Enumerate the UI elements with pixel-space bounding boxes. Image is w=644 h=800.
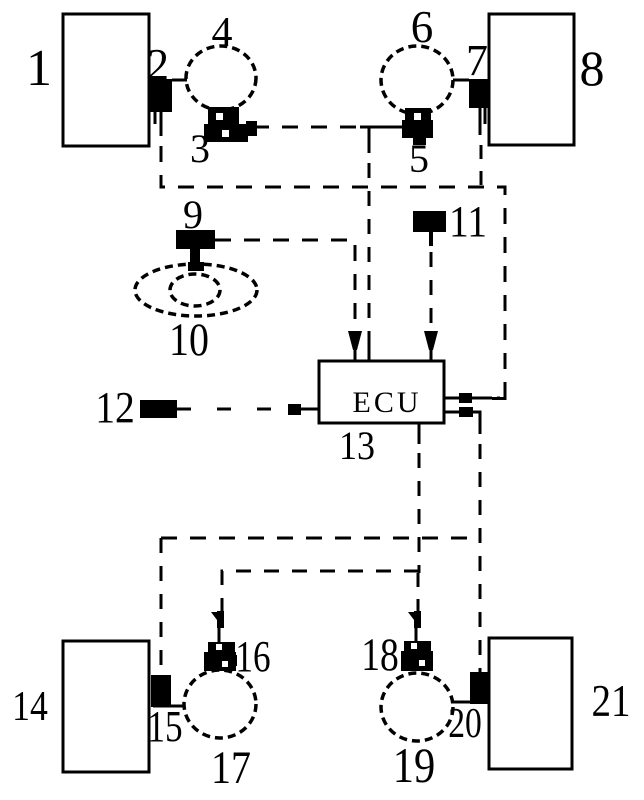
wheel speed sensor 2	[150, 79, 172, 112]
brake disc circle 17	[184, 670, 256, 738]
wire circle6 to sensor7	[453, 79, 469, 82]
wire left port to ECU	[301, 408, 319, 411]
svg-text:9: 9	[183, 192, 203, 237]
svg-text:12: 12	[95, 384, 135, 432]
svg-text:11: 11	[449, 198, 487, 246]
sensor 12	[140, 400, 177, 418]
wheel speed sensor 7	[469, 79, 489, 108]
wheel speed sensor 15	[151, 675, 171, 707]
brake actuator 3	[204, 107, 257, 142]
dashed rear bus right vertical	[479, 444, 482, 672]
sensor 11	[413, 211, 446, 232]
dashed rear bus horizontal y538	[161, 537, 480, 540]
wheel block 1	[63, 14, 149, 146]
svg-text:17: 17	[211, 742, 251, 794]
wheel block 8	[489, 14, 574, 145]
dashed front hydraulic bus	[253, 126, 360, 129]
svg-text:20: 20	[448, 701, 482, 747]
wheel speed sensor 20	[470, 672, 488, 704]
tick down from front bus	[368, 127, 371, 153]
dashed wire sensor11 to ECU	[430, 252, 433, 332]
brake disc circle 4	[186, 46, 256, 110]
arrowhead 9-line into ECU	[348, 331, 362, 350]
dashed ECU port A out to right	[472, 397, 500, 400]
arrow into 16	[211, 611, 224, 643]
ECU right port square A	[459, 393, 472, 403]
dashed line front bus to ECU top	[368, 163, 371, 336]
svg-text:16: 16	[235, 631, 270, 681]
arrow into 18	[408, 611, 421, 642]
svg-text:19: 19	[393, 739, 435, 794]
svg-text:3: 3	[190, 126, 210, 171]
dashed inner horizontal y571	[222, 571, 419, 611]
solid entry of front bus into ECU top	[368, 336, 371, 361]
dashed wire sensor12 to ECU	[177, 408, 288, 411]
wire into actuator 5	[360, 126, 402, 129]
arrowhead 11-line into ECU	[424, 331, 438, 350]
brake actuator 16	[204, 642, 237, 671]
dashed sensor bus: sensor2 down, across y185, right side down to ECU port A	[161, 146, 505, 398]
ECU right port square B	[459, 407, 473, 417]
svg-text:21: 21	[591, 676, 630, 727]
pipe stubs below sensor 2	[154, 112, 157, 124]
wire ECU to port B	[444, 411, 459, 414]
wire circle19 to sensor20	[453, 701, 470, 704]
svg-text:8: 8	[580, 40, 605, 96]
brake actuator 18	[401, 641, 433, 671]
steering column stem	[190, 249, 200, 266]
wire sensor2 to circle4	[172, 79, 187, 82]
brake disc circle 6	[381, 46, 453, 114]
ECU left port square	[288, 404, 301, 415]
sensor 11 stem	[429, 232, 433, 246]
svg-text:10: 10	[169, 314, 209, 366]
corner of right-side sensor bus at ECU port A	[492, 385, 505, 399]
svg-text:14: 14	[12, 683, 48, 729]
wire sensor15 to circle17	[153, 705, 185, 708]
wheel block 21	[489, 638, 572, 769]
svg-text:7: 7	[466, 36, 488, 85]
steering sensor 9	[176, 230, 215, 249]
dashed rear bus left vertical to sensor 15	[160, 538, 163, 675]
svg-text:ECU: ECU	[353, 386, 422, 419]
svg-text:15: 15	[147, 701, 182, 751]
dashed ECU bottom down	[418, 453, 421, 573]
wheel block 14	[63, 641, 149, 772]
svg-text:18: 18	[361, 629, 399, 681]
svg-text:5: 5	[409, 136, 429, 181]
dashed from junction down to arrow 18	[417, 573, 420, 611]
brake actuator 5	[402, 108, 433, 145]
pipe stubs below sensor 7	[479, 108, 482, 135]
svg-text:6: 6	[411, 2, 434, 52]
wire ECU port B right then down	[473, 412, 480, 434]
ECU bottom stub	[418, 423, 421, 444]
brake disc circle 19	[381, 673, 453, 741]
svg-text:1: 1	[26, 40, 52, 97]
wire actuator3 right	[239, 126, 253, 129]
dashed wire sensor9 to ECU	[215, 240, 355, 332]
svg-text:4: 4	[212, 10, 233, 56]
wire ECU to port A	[444, 397, 459, 400]
svg-text:2: 2	[147, 40, 169, 89]
steering wheel inner ellipse	[170, 274, 220, 306]
dashed drop from sensor 7	[480, 145, 483, 187]
ECU box 13	[319, 361, 444, 423]
steering wheel outer ellipse 10	[135, 264, 257, 316]
stem base blob	[188, 262, 204, 271]
svg-text:13: 13	[339, 424, 375, 468]
